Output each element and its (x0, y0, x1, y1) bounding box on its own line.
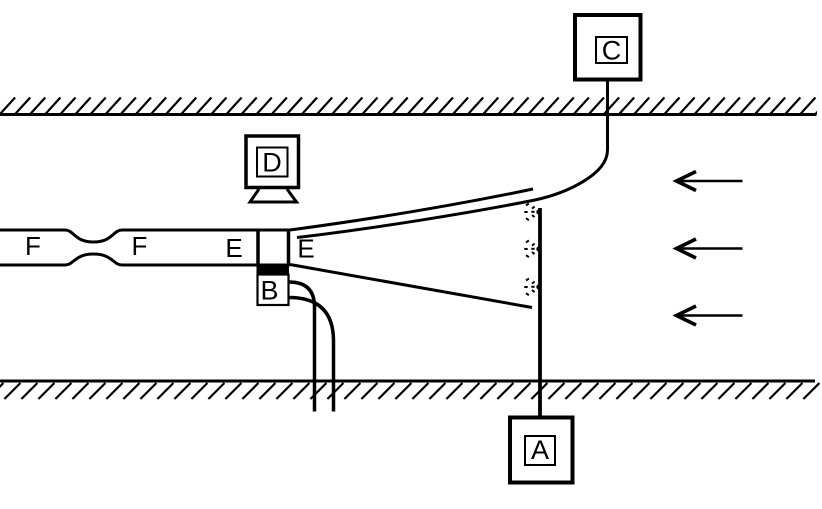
svg-text:F: F (132, 231, 148, 261)
monitor D (246, 136, 299, 202)
svg-text:A: A (531, 435, 549, 465)
svg-text:E: E (225, 233, 242, 263)
spray cluster 3 (524, 278, 541, 295)
svg-text:B: B (260, 276, 278, 306)
top wall (0, 98, 822, 115)
screen support line from top down to box A (538, 208, 542, 417)
diffuser bottom line (290, 265, 532, 308)
spray cluster 1 (524, 203, 541, 220)
svg-text:D: D (262, 148, 282, 178)
flow arrow 1 (677, 172, 743, 191)
drain pipe outer line (289, 298, 334, 412)
sensor block left edge (256, 229, 260, 267)
box C (575, 15, 641, 80)
flow arrow 3 (677, 306, 743, 325)
probe tube bottom line with venturi bump (0, 254, 290, 265)
diffuser mid line curving into tube to box C (297, 81, 608, 238)
drain pipe inner line (289, 282, 315, 412)
svg-text:C: C (602, 36, 622, 66)
probe tube top line with venturi dip (0, 230, 290, 242)
sensor block right edge (287, 229, 291, 267)
box B (258, 275, 289, 306)
flow arrow 2 (677, 239, 743, 258)
diffuser top line (290, 189, 533, 230)
box A (510, 418, 573, 483)
black sensor element (257, 265, 290, 275)
spray cluster 2 (524, 240, 541, 257)
bottom wall (0, 381, 822, 399)
svg-text:F: F (25, 231, 41, 261)
